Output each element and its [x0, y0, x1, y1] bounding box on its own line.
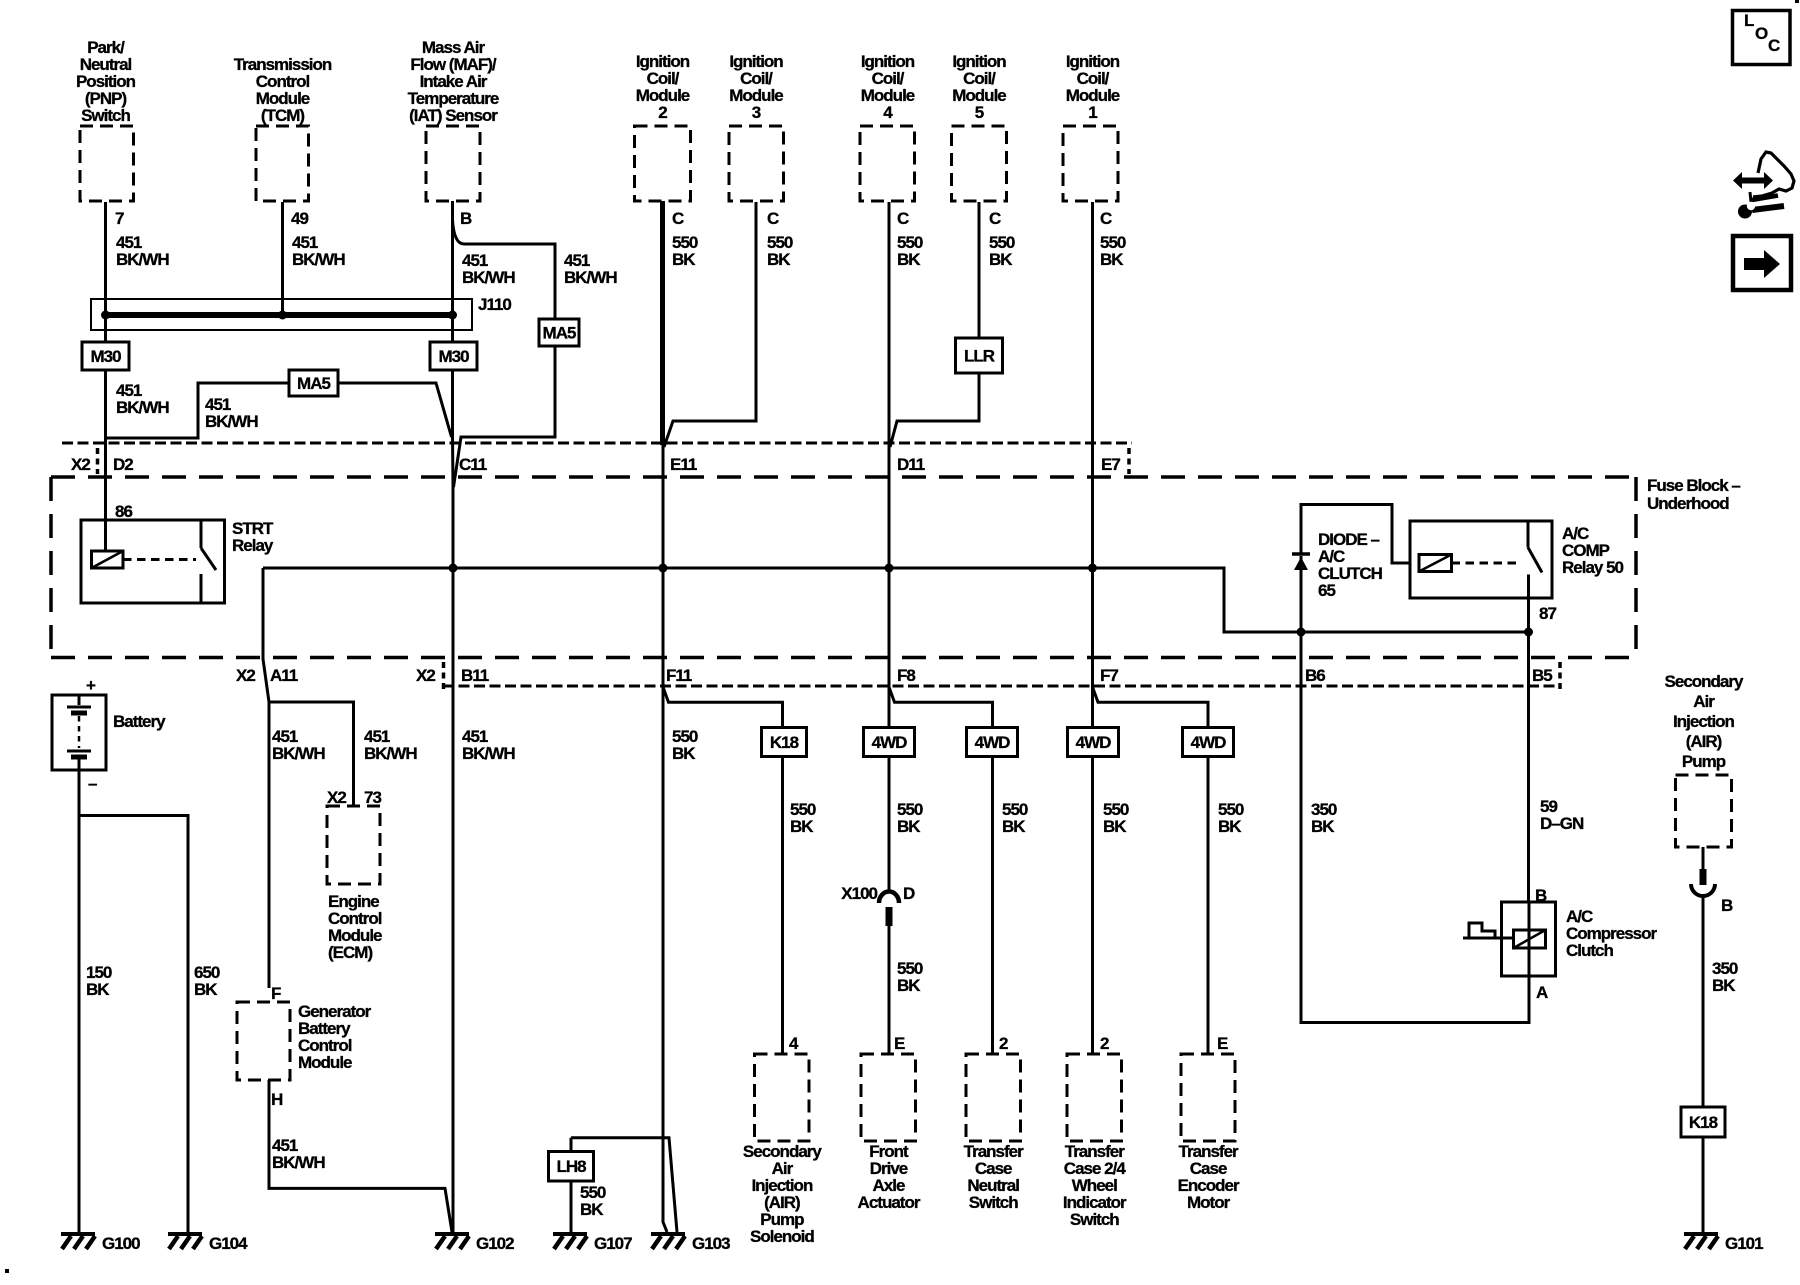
svg-text:K18: K18	[770, 733, 799, 752]
svg-text:Clutch: Clutch	[1566, 941, 1614, 960]
svg-text:4WD: 4WD	[1076, 733, 1112, 752]
svg-text:Relay 50: Relay 50	[1562, 558, 1624, 577]
svg-text:X2: X2	[71, 455, 90, 474]
svg-text:F: F	[271, 984, 281, 1003]
svg-text:G101: G101	[1725, 1234, 1763, 1253]
svg-text:B11: B11	[461, 666, 489, 685]
svg-text:A: A	[1536, 983, 1548, 1002]
svg-text:BK: BK	[767, 250, 791, 269]
svg-text:BK: BK	[672, 744, 696, 763]
svg-text:Motor: Motor	[1187, 1193, 1231, 1212]
svg-text:BK: BK	[580, 1200, 604, 1219]
svg-text:BK: BK	[790, 817, 814, 836]
svg-text:BK: BK	[1712, 976, 1736, 995]
svg-text:(TCM): (TCM)	[261, 106, 304, 125]
svg-text:Relay: Relay	[232, 536, 274, 555]
svg-text:BK/WH: BK/WH	[462, 268, 515, 287]
svg-text:C: C	[897, 209, 909, 228]
svg-text:C11: C11	[459, 455, 487, 474]
svg-text:+: +	[86, 676, 96, 695]
svg-text:2: 2	[658, 103, 667, 122]
svg-text:BK: BK	[1218, 817, 1242, 836]
svg-text:C: C	[1100, 209, 1112, 228]
svg-text:O: O	[1755, 24, 1768, 43]
svg-text:E: E	[894, 1034, 905, 1053]
svg-text:C: C	[767, 209, 779, 228]
svg-text:G103: G103	[692, 1234, 730, 1253]
svg-text:2: 2	[1100, 1034, 1109, 1053]
svg-text:2: 2	[999, 1034, 1008, 1053]
svg-text:G102: G102	[476, 1234, 514, 1253]
svg-text:C: C	[1768, 36, 1780, 55]
svg-text:4WD: 4WD	[975, 733, 1011, 752]
svg-text:Switch: Switch	[81, 106, 130, 125]
svg-text:BK/WH: BK/WH	[116, 250, 169, 269]
svg-text:B6: B6	[1305, 666, 1325, 685]
svg-text:E: E	[1217, 1034, 1228, 1053]
svg-text:LLR: LLR	[964, 346, 995, 365]
svg-text:BK/WH: BK/WH	[205, 412, 258, 431]
svg-text:M30: M30	[90, 347, 121, 366]
svg-text:Battery: Battery	[113, 712, 166, 731]
svg-text:E7: E7	[1101, 455, 1120, 474]
svg-text:BK: BK	[897, 250, 921, 269]
svg-text:F8: F8	[897, 666, 915, 685]
svg-text:M30: M30	[438, 347, 469, 366]
svg-text:LH8: LH8	[556, 1157, 586, 1176]
svg-text:F7: F7	[1100, 666, 1118, 685]
svg-text:Module: Module	[298, 1053, 352, 1072]
svg-text:X2: X2	[416, 666, 435, 685]
svg-text:B5: B5	[1532, 666, 1552, 685]
svg-text:Fuse Block –: Fuse Block –	[1647, 476, 1740, 495]
svg-text:BK: BK	[989, 250, 1013, 269]
svg-text:Injection: Injection	[1673, 712, 1735, 731]
svg-text:K18: K18	[1689, 1113, 1718, 1132]
svg-text:X2: X2	[327, 788, 346, 807]
svg-text:BK/WH: BK/WH	[564, 268, 617, 287]
svg-text:73: 73	[364, 788, 381, 807]
svg-text:Air: Air	[1693, 692, 1715, 711]
svg-text:B: B	[460, 209, 472, 228]
svg-text:Underhood: Underhood	[1647, 494, 1729, 513]
svg-text:BK: BK	[897, 817, 921, 836]
svg-text:BK/WH: BK/WH	[292, 250, 345, 269]
svg-text:87: 87	[1539, 604, 1556, 623]
svg-text:X2: X2	[236, 666, 255, 685]
svg-text:3: 3	[752, 103, 761, 122]
svg-text:1: 1	[1088, 103, 1097, 122]
svg-text:4WD: 4WD	[872, 733, 908, 752]
svg-text:BK/WH: BK/WH	[462, 744, 515, 763]
svg-text:–: –	[88, 774, 97, 793]
svg-text:Switch: Switch	[969, 1193, 1018, 1212]
svg-text:D2: D2	[113, 455, 133, 474]
svg-text:C: C	[672, 209, 684, 228]
svg-text:(AIR): (AIR)	[1686, 732, 1722, 751]
svg-text:65: 65	[1318, 581, 1335, 600]
svg-text:B: B	[1535, 886, 1547, 905]
svg-text:(ECM): (ECM)	[328, 943, 372, 962]
svg-text:5: 5	[975, 103, 984, 122]
svg-text:BK/WH: BK/WH	[272, 744, 325, 763]
svg-text:MA5: MA5	[543, 323, 576, 342]
svg-text:B: B	[1721, 896, 1733, 915]
svg-text:Actuator: Actuator	[858, 1193, 921, 1212]
svg-text:L: L	[1744, 11, 1754, 30]
svg-text:49: 49	[291, 209, 308, 228]
svg-text:D11: D11	[897, 455, 925, 474]
svg-text:BK: BK	[1100, 250, 1124, 269]
svg-text:X100: X100	[841, 884, 877, 903]
svg-text:86: 86	[115, 502, 132, 521]
svg-text:E11: E11	[670, 455, 697, 474]
svg-text:7: 7	[115, 209, 124, 228]
svg-text:F11: F11	[666, 666, 692, 685]
svg-text:Solenoid: Solenoid	[750, 1227, 814, 1246]
svg-text:BK: BK	[194, 980, 218, 999]
svg-text:A11: A11	[270, 666, 298, 685]
svg-text:Pump: Pump	[1682, 752, 1726, 771]
svg-text:H: H	[271, 1090, 283, 1109]
svg-text:D: D	[903, 884, 915, 903]
svg-text:Secondary: Secondary	[1665, 672, 1744, 691]
svg-text:(IAT) Sensor: (IAT) Sensor	[409, 106, 498, 125]
svg-text:MA5: MA5	[297, 374, 330, 393]
svg-text:G104: G104	[209, 1234, 248, 1253]
svg-text:4WD: 4WD	[1191, 733, 1227, 752]
svg-text:BK/WH: BK/WH	[272, 1153, 325, 1172]
svg-text:G107: G107	[594, 1234, 632, 1253]
svg-text:BK: BK	[1103, 817, 1127, 836]
svg-text:C: C	[989, 209, 1001, 228]
svg-text:BK: BK	[897, 976, 921, 995]
svg-text:J110: J110	[478, 295, 511, 314]
svg-text:BK/WH: BK/WH	[364, 744, 417, 763]
svg-text:D–GN: D–GN	[1540, 814, 1584, 833]
svg-text:G100: G100	[102, 1234, 140, 1253]
svg-text:BK: BK	[86, 980, 110, 999]
svg-text:BK: BK	[1002, 817, 1026, 836]
svg-text:Switch: Switch	[1070, 1210, 1119, 1229]
svg-text:BK: BK	[1311, 817, 1335, 836]
svg-text:BK/WH: BK/WH	[116, 398, 169, 417]
svg-text:BK: BK	[672, 250, 696, 269]
